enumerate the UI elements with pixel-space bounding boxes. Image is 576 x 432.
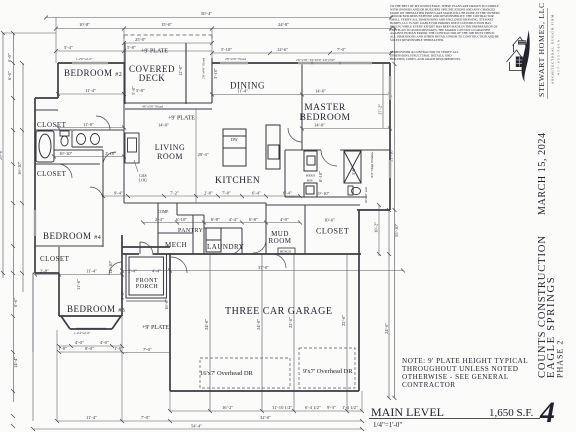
svg-text:ROOM: ROOM	[157, 152, 183, 161]
svg-text:11'-10 1/2": 11'-10 1/2"	[272, 405, 292, 410]
svg-text:4'-0": 4'-0"	[100, 340, 109, 345]
svg-text:1-2'4"x4'-0": 1-2'4"x4'-0"	[74, 331, 91, 335]
window bed3 bay	[76, 327, 106, 329]
svg-text:14'-0": 14'-0"	[158, 123, 169, 128]
wall covered deck	[125, 43, 212, 109]
svg-text:DW: DW	[231, 137, 238, 142]
wire interior dim rows	[33, 17, 390, 421]
svg-text:DECK: DECK	[139, 73, 166, 83]
room label LIVING ROOM	[155, 143, 186, 161]
label high window	[306, 151, 374, 203]
bed3 bay dim labels	[74, 331, 91, 335]
node dim row hall labels	[155, 217, 289, 270]
svg-text:10'-8": 10'-8"	[79, 22, 90, 27]
bath2 toilet	[60, 131, 69, 146]
title COUNTS CONSTRUCTION	[537, 235, 565, 378]
svg-text:5'-8": 5'-8"	[127, 45, 136, 50]
master shower	[344, 151, 361, 183]
svg-text:6'-4 1/2": 6'-4 1/2"	[305, 405, 321, 410]
svg-text:11'-4": 11'-4"	[85, 88, 96, 93]
sheet number 4	[539, 396, 555, 429]
svg-text:BENCH: BENCH	[280, 250, 292, 254]
svg-text:6'-10": 6'-10"	[176, 217, 187, 222]
wall exterior outline	[35, 63, 390, 391]
svg-text:12'-6": 12'-6"	[277, 47, 288, 52]
svg-text:4'0"x5'0" Fixed: 4'0"x5'0" Fixed	[142, 105, 163, 109]
svg-text:4'-4": 4'-4"	[152, 269, 161, 274]
svg-text:5'-6": 5'-6"	[351, 167, 356, 175]
svg-text:MASTER: MASTER	[304, 103, 346, 113]
svg-text:6'-4": 6'-4"	[283, 191, 292, 196]
svg-text:24'-6": 24'-6"	[384, 323, 389, 334]
window bed4 left wall	[34, 210, 37, 236]
svg-text:4'-4": 4'-4"	[229, 217, 238, 222]
svg-text:6'-6": 6'-6"	[13, 298, 18, 307]
svg-text:14'-4": 14'-4"	[13, 357, 18, 368]
gas log	[125, 133, 139, 163]
kitchen island	[223, 129, 246, 166]
window bed2 top	[72, 62, 108, 65]
svg-text:16'-2": 16'-2"	[222, 405, 233, 410]
svg-text:1/4"=1'-0": 1/4"=1'-0"	[373, 421, 402, 429]
svg-text:6'-6": 6'-6"	[7, 71, 12, 80]
title disclaimer paragraph	[390, 4, 500, 62]
svg-text:4'-0": 4'-0"	[75, 340, 84, 345]
master vanity	[304, 151, 317, 197]
svg-text:37'-0": 37'-0"	[258, 265, 269, 270]
svg-text:11'-4": 11'-4"	[86, 269, 97, 274]
room label MECH	[165, 241, 187, 249]
svg-text:5'-4": 5'-4"	[64, 45, 73, 50]
room label BEDROOM #4	[43, 231, 101, 241]
node interior dim labels	[40, 58, 330, 290]
svg-text:SOLELY RESPONSIBLE THEREAFTER.: SOLELY RESPONSIBLE THEREAFTER.	[390, 38, 444, 42]
svg-text:54'-4": 54'-4"	[191, 424, 202, 429]
room label MASTER BEDROOM	[299, 103, 350, 123]
laundry machines	[206, 228, 221, 252]
svg-text:24'-6": 24'-6"	[204, 319, 209, 330]
room label COVERED DECK	[129, 64, 175, 83]
svg-text:LOG: LOG	[139, 179, 147, 183]
overhead door left dashed	[200, 358, 290, 388]
svg-text:7'-2": 7'-2"	[170, 191, 179, 196]
svg-text:CLOSET: CLOSET	[316, 227, 349, 236]
svg-text:11'-0": 11'-0"	[83, 122, 94, 127]
bench label	[280, 250, 292, 254]
svg-text:22'-6": 22'-6"	[341, 315, 346, 326]
svg-text:MECH: MECH	[165, 241, 187, 249]
svg-text:24'-8": 24'-8"	[278, 22, 289, 27]
overhead door right dashed	[299, 348, 355, 388]
svg-text:7'-0": 7'-0"	[143, 347, 152, 352]
svg-text:14'-10": 14'-10"	[108, 260, 113, 274]
svg-text:4'-8" High Window: 4'-8" High Window	[370, 151, 374, 178]
svg-text:HIS: HIS	[307, 179, 313, 183]
svg-text:17'-2": 17'-2"	[378, 104, 383, 115]
svg-text:11'-6": 11'-6"	[76, 279, 81, 290]
svg-text:8'-10": 8'-10"	[318, 171, 323, 182]
wire bottom dim lines	[33, 254, 362, 429]
svg-text:10'-10": 10'-10"	[59, 151, 73, 156]
door arc garage service	[171, 257, 187, 273]
svg-text:BEDROOM #3: BEDROOM #3	[67, 304, 125, 314]
svg-text:ARCHITECTURAL DESIGN FIRM: ARCHITECTURAL DESIGN FIRM	[551, 14, 555, 84]
porch steps	[126, 300, 167, 302]
svg-text:32'-0": 32'-0"	[260, 415, 271, 420]
svg-text:6'-0": 6'-0"	[7, 53, 12, 62]
svg-text:+9' PLATE: +9' PLATE	[141, 49, 168, 55]
door arc front leaf	[139, 242, 141, 254]
bath2 tub	[36, 131, 54, 162]
wire deck dashed roof line	[124, 35, 212, 43]
svg-text:+9' PLATE: +9' PLATE	[142, 325, 169, 331]
svg-text:CLOSET: CLOSET	[37, 121, 67, 129]
dishwasher label	[231, 137, 238, 142]
svg-text:1'-4 1/2": 1'-4 1/2"	[342, 405, 358, 410]
svg-text:7'-8": 7'-8"	[222, 191, 231, 196]
door arc bed4	[90, 187, 103, 200]
door arc bed2	[96, 116, 110, 130]
node top dim labels	[64, 11, 346, 62]
svg-text:ROOM: ROOM	[268, 237, 291, 245]
tick marks hall	[120, 221, 405, 273]
svg-text:417-655-5019: 417-655-5019	[557, 39, 561, 75]
svg-text:CONTRACTOR: CONTRACTOR	[402, 381, 456, 389]
title underline main level	[369, 418, 540, 420]
svg-text:BEDROOM #4: BEDROOM #4	[43, 231, 101, 241]
window master top	[298, 62, 372, 65]
svg-text:2'-8": 2'-8"	[40, 269, 49, 274]
svg-text:6'-8": 6'-8"	[249, 217, 258, 222]
room label PANTRY	[178, 228, 204, 234]
wire left dim lines	[3, 33, 56, 402]
svg-text:MAIN LEVEL: MAIN LEVEL	[371, 405, 444, 419]
window master right wall 2	[389, 160, 392, 178]
svg-text:HER'S: HER'S	[306, 174, 315, 178]
svg-text:2'-4": 2'-4"	[155, 217, 164, 222]
svg-text:14'-6": 14'-6"	[315, 89, 326, 94]
svg-text:16'-10": 16'-10"	[17, 161, 22, 175]
svg-text:7'-0": 7'-0"	[141, 415, 150, 420]
title STEWART HOMES, LLC	[537, 2, 546, 97]
porch dim label	[120, 269, 169, 353]
front door opening gap	[139, 252, 153, 257]
master toilet	[348, 186, 361, 195]
room label KITCHEN	[215, 176, 260, 186]
door arc bed4 closet	[58, 164, 72, 178]
svg-text:CLOSET: CLOSET	[37, 170, 67, 178]
svg-text:GAS: GAS	[139, 174, 147, 178]
svg-text:3'-0": 3'-0"	[120, 291, 125, 300]
door arc hall-bath	[103, 152, 116, 165]
wire porch dim line	[122, 352, 170, 354]
overhead door labels	[200, 368, 353, 377]
note plate height block	[402, 357, 528, 389]
svg-text:BEDROOM: BEDROOM	[299, 113, 350, 123]
door arc master	[321, 150, 337, 166]
svg-text:BEDROOM #2: BEDROOM #2	[64, 68, 122, 78]
svg-text:MARCH 15, 2024: MARCH 15, 2024	[537, 132, 548, 215]
svg-text:NOTE: 9' PLATE HEIGHT TYPICAL: NOTE: 9' PLATE HEIGHT TYPICAL	[402, 357, 528, 365]
svg-text:COMP.: COMP.	[158, 210, 169, 214]
room label DINING	[230, 81, 265, 91]
svg-text:20'x10" vent: 20'x10" vent	[364, 187, 368, 203]
svg-text:PORCH: PORCH	[136, 284, 159, 290]
wall interior partitions	[35, 63, 390, 273]
svg-text:8'-0": 8'-0"	[85, 346, 94, 351]
svg-text:4: 4	[539, 396, 555, 429]
svg-text:16'-0": 16'-0"	[164, 299, 169, 310]
svg-text:55'-10": 55'-10"	[394, 223, 399, 237]
room label BEDROOM #2	[64, 68, 122, 78]
node bottom dim labels	[58, 315, 358, 429]
svg-text:29'-4": 29'-4"	[198, 152, 209, 157]
title underline	[547, 8, 549, 99]
svg-text:2'0"x3'0" 3'0"x5'0" 2'0"x3'0": 2'0"x3'0" 3'0"x5'0" 2'0"x3'0"	[296, 58, 336, 62]
svg-text:10'-2": 10'-2"	[374, 222, 379, 233]
door arc laundry	[230, 242, 242, 254]
logo swoosh	[522, 30, 530, 82]
room label CLOSET bed4	[40, 255, 70, 263]
node left dim labels	[0, 53, 22, 368]
door arc master entry	[288, 128, 302, 142]
svg-text:LIVING: LIVING	[155, 143, 186, 152]
title MARCH 15 2024	[537, 132, 548, 215]
door arc mud	[253, 240, 266, 253]
door arc bed3	[109, 262, 122, 275]
svg-text:+9' PLATE: +9' PLATE	[168, 116, 195, 122]
kitchen counter + range	[266, 125, 280, 169]
svg-text:2'8"x6'8" Fixed: 2'8"x6'8" Fixed	[202, 58, 206, 79]
svg-text:22'-6": 22'-6"	[288, 317, 293, 328]
svg-text:STEWART HOMES, LLC: STEWART HOMES, LLC	[537, 2, 546, 97]
svg-text:50'-4": 50'-4"	[201, 11, 212, 16]
tick marks dims	[1, 16, 397, 432]
svg-text:2'-8": 2'-8"	[204, 191, 213, 196]
svg-text:1-2'6"x4'-0": 1-2'6"x4'-0"	[76, 57, 93, 61]
room label MUD ROOM	[268, 230, 291, 245]
node right dim labels	[374, 104, 400, 334]
svg-text:5'-8": 5'-8"	[136, 88, 145, 93]
svg-text:6'-8": 6'-8"	[211, 217, 220, 222]
svg-text:1,650 S.F.: 1,650 S.F.	[489, 407, 534, 419]
svg-text:25'-0": 25'-0"	[135, 37, 146, 42]
room label BEDROOM #3	[67, 304, 125, 314]
svg-text:9'-4": 9'-4"	[114, 191, 123, 196]
svg-text:10'-6": 10'-6"	[324, 218, 335, 223]
svg-text:4'-0": 4'-0"	[280, 217, 289, 222]
front porch	[126, 254, 167, 298]
room label FRONT PORCH	[136, 278, 159, 290]
mud bench	[278, 248, 295, 254]
note plate labels	[141, 49, 195, 332]
svg-text:1'-8": 1'-8"	[114, 346, 123, 351]
svg-text:6'-4": 6'-4"	[252, 191, 261, 196]
svg-text:CLOSET: CLOSET	[40, 255, 70, 263]
room label THREE CAR GARAGE	[225, 306, 332, 317]
wall mud closet bottom	[378, 205, 380, 256]
room label CLOSET mud	[316, 218, 349, 236]
room label CLOSET top	[37, 121, 67, 129]
svg-text:16'x7' Overhead DR: 16'x7' Overhead DR	[200, 370, 254, 377]
svg-text:PHASE 2: PHASE 2	[556, 340, 565, 378]
svg-text:BUILDING CODES, AND GRADE REQU: BUILDING CODES, AND GRADE REQUIREMENTS.	[390, 57, 461, 62]
svg-text:24'-6": 24'-6"	[256, 319, 261, 330]
logo stewart homes	[507, 37, 527, 71]
svg-text:14'-0": 14'-0"	[314, 123, 325, 128]
wire right dim lines	[383, 28, 395, 398]
svg-text:7'-0": 7'-0"	[337, 47, 346, 52]
svg-text:11'-4": 11'-4"	[237, 89, 248, 94]
door arc front	[140, 242, 153, 255]
window dining top	[220, 62, 248, 65]
svg-text:5'-10": 5'-10"	[221, 47, 232, 52]
svg-text:THROUGHOUT UNLESS NOTED: THROUGHOUT UNLESS NOTED	[402, 365, 518, 373]
door arc mud-garage	[272, 254, 286, 268]
svg-text:2'-4": 2'-4"	[128, 269, 137, 274]
svg-text:THREE CAR GARAGE: THREE CAR GARAGE	[225, 306, 332, 317]
svg-text:2'0"x5'0" Fixed: 2'0"x5'0" Fixed	[225, 57, 246, 61]
svg-text:OTHERWISE - SEE GENERAL: OTHERWISE - SEE GENERAL	[402, 373, 509, 381]
svg-text:29'-0": 29'-0"	[0, 149, 3, 160]
svg-text:12'-0": 12'-0"	[178, 65, 183, 76]
svg-text:15'-0": 15'-0"	[161, 22, 172, 27]
title architectural design firm	[551, 14, 561, 84]
wire dim row hall	[122, 223, 403, 271]
svg-text:3'-10": 3'-10"	[213, 68, 218, 79]
title MAIN LEVEL	[371, 405, 534, 429]
svg-text:9'x7' Overhead DR: 9'x7' Overhead DR	[303, 368, 353, 375]
svg-text:10'-10": 10'-10"	[316, 191, 330, 196]
room label CLOSET mid	[37, 170, 67, 178]
wire top dim line 50-4	[46, 18, 391, 54]
room label LAUNDRY	[207, 243, 244, 251]
svg-text:KITCHEN: KITCHEN	[215, 176, 260, 186]
svg-text:11'-4": 11'-4"	[86, 415, 97, 420]
svg-text:PANTRY: PANTRY	[178, 228, 204, 234]
svg-text:9'-3": 9'-3"	[327, 405, 336, 410]
bath2 sinks	[72, 131, 103, 147]
window master right wall	[389, 76, 392, 100]
